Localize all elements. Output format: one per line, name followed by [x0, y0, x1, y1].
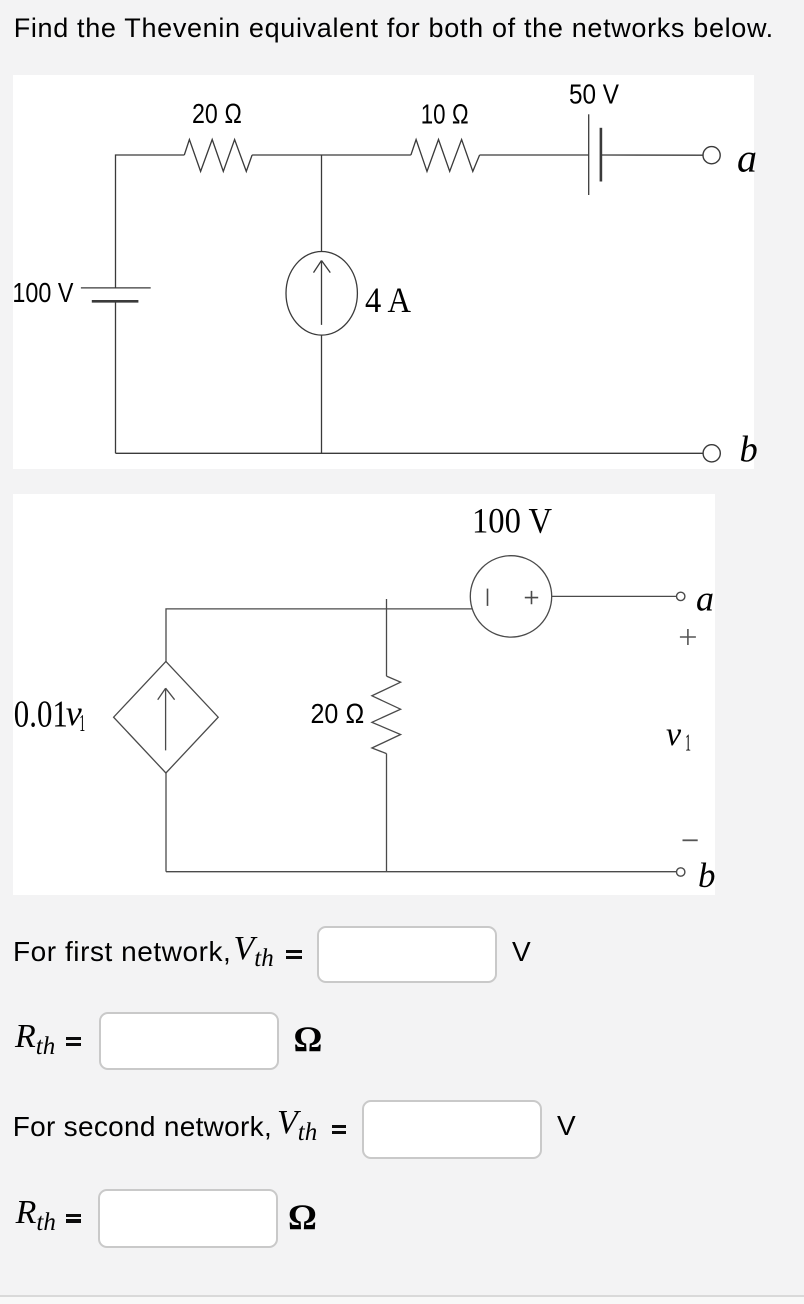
svg-text:100 V: 100 V: [472, 501, 552, 541]
battery 50 V short plate: [600, 128, 603, 182]
wire bottom: [116, 452, 704, 454]
form row 4: [16, 1196, 56, 1230]
plus sign v1 polarity: [680, 629, 696, 645]
form row 3: [13, 1113, 272, 1141]
terminal b small circle: [677, 868, 685, 876]
label b (second): [698, 856, 716, 895]
dependent source diamond: [114, 661, 219, 773]
svg-text:50 V: 50 V: [569, 79, 619, 110]
wire source to terminal a: [552, 595, 677, 597]
wire diamond to bottom: [165, 773, 167, 872]
svg-text:1: 1: [79, 710, 85, 737]
resistor 20 ohm vertical: [372, 676, 401, 754]
minus sign v1 polarity: [683, 839, 698, 841]
voltage source minus bar: [487, 589, 489, 606]
form row 1: [13, 938, 231, 966]
svg-text:b: b: [740, 428, 758, 469]
label 20 ohm: [192, 98, 242, 129]
title: [14, 15, 774, 42]
wire top (left corner to source circle): [166, 609, 473, 663]
resistor 10 ohm: [411, 140, 480, 172]
voltage source plus sign: [525, 591, 538, 604]
label b: [740, 428, 758, 469]
svg-text:20 Ω: 20 Ω: [311, 698, 365, 729]
label a (second): [696, 578, 714, 618]
white panel circuit 1: [13, 75, 754, 469]
bottom divider: [0, 1295, 804, 1297]
svg-text:100 V: 100 V: [12, 277, 73, 308]
svg-text:20 Ω: 20 Ω: [192, 98, 242, 129]
label 20 ohm (second): [311, 698, 365, 729]
wire stub above junction: [386, 599, 388, 676]
label 10 ohm: [421, 98, 469, 129]
terminal a circle: [703, 147, 720, 164]
svg-text:0.01: 0.01: [14, 693, 68, 735]
voltage source 100 V circle: [470, 556, 551, 637]
wire left bottom: [115, 301, 117, 453]
wire junction to current source: [321, 155, 323, 252]
battery 50 V long plate: [588, 114, 590, 195]
svg-text:1: 1: [685, 730, 691, 757]
terminal a small circle: [677, 592, 685, 600]
current source arrow: [314, 261, 331, 325]
svg-text:10 Ω: 10 Ω: [421, 98, 469, 129]
label 100 V (source): [472, 501, 552, 541]
battery 100 V long plate: [81, 287, 151, 289]
label 0.01v1: [14, 693, 86, 737]
svg-text:a: a: [696, 578, 714, 618]
wire top-middle: [252, 154, 411, 156]
wire top-left (100V battery to 20 ohm): [116, 155, 185, 288]
battery 100 V short plate: [92, 300, 139, 303]
label 4 A: [365, 280, 411, 320]
label a: [737, 136, 757, 181]
label v1: [666, 716, 691, 757]
wire bottom (second): [166, 871, 677, 873]
form row 2: [15, 1020, 55, 1054]
label 100 V: [12, 277, 73, 308]
terminal b circle: [703, 445, 720, 462]
svg-text:v: v: [666, 716, 682, 753]
wire battery to terminal a: [601, 154, 703, 156]
wire to battery 50V: [480, 154, 589, 156]
white panel circuit 2: [13, 494, 715, 895]
svg-text:4 A: 4 A: [365, 280, 411, 320]
wire resistor to bottom: [386, 754, 388, 872]
dependent source arrow: [158, 688, 175, 750]
resistor 20 ohm: [184, 140, 252, 172]
svg-text:a: a: [737, 136, 757, 181]
current source 4 A ellipse: [286, 252, 357, 336]
wire current source to bottom: [321, 335, 323, 453]
svg-text:b: b: [698, 856, 716, 895]
label 50 V: [569, 79, 619, 110]
